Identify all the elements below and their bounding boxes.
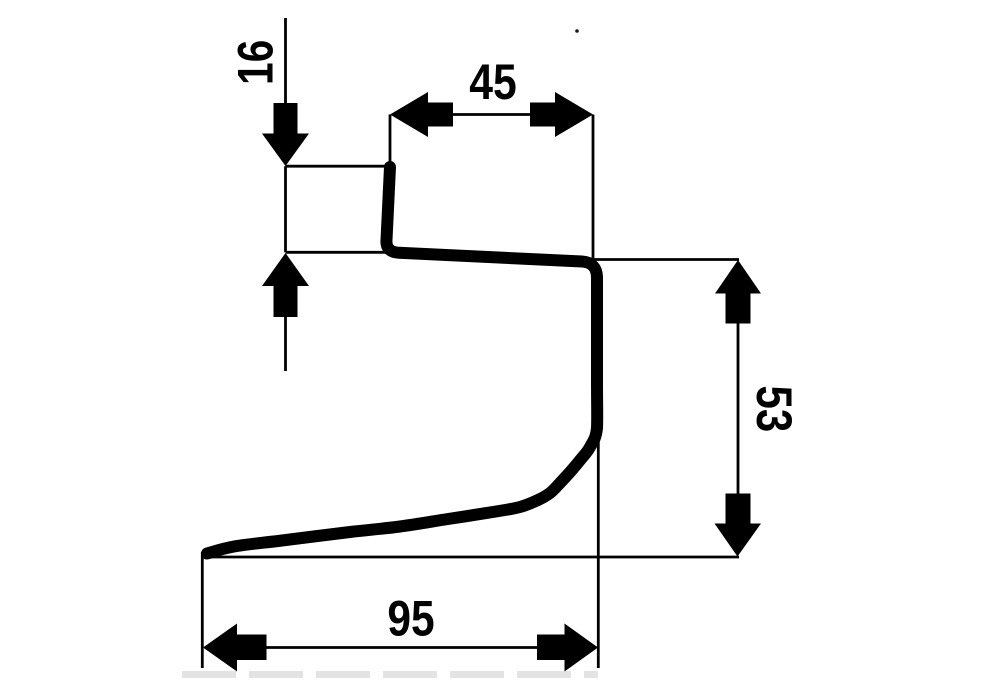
arrow 16 up [262,253,309,317]
rect bottom edge [286,251,401,254]
label 45 [469,54,516,110]
dim 95: left extension [201,552,204,668]
rect left edge [284,166,287,252]
svg-text:16: 16 [227,40,283,85]
svg-text:45: 45 [469,54,516,110]
label 16 [227,40,283,85]
arrow 95 left [203,624,267,672]
svg-text:95: 95 [387,590,434,646]
dim 45: right extension [592,115,595,260]
dim 53: top extension [590,258,739,261]
dim 16: upper witness line [284,18,287,104]
speck dot top right [575,29,579,33]
arrow 45 right [530,92,593,137]
profile outline (thick section curve) [207,167,597,554]
dim 53: bottom extension [201,556,739,559]
arrow 53 up [715,260,761,324]
dim 45: left extension [389,115,392,169]
svg-text:53: 53 [746,386,802,433]
dim 95: right extension [597,440,600,668]
watermark smudge bottom [182,671,598,678]
arrow 95 right [537,624,598,672]
arrow 53 down [715,494,762,557]
dim 53: line [737,322,740,495]
arrow 45 left [390,92,453,137]
dim 16: lower witness line [284,317,287,371]
label 95 [387,590,434,646]
label 53 [746,386,802,433]
dim 45: line [452,113,531,116]
dim 95: line [266,646,538,649]
arrow 16 down [262,103,309,166]
rect top edge [286,165,393,168]
